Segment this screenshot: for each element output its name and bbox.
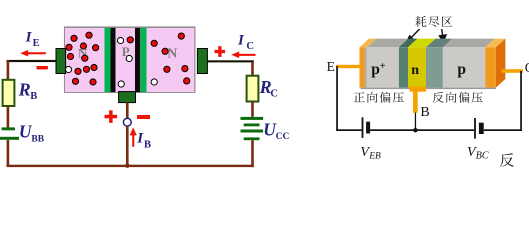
base P region (pink) (116, 28, 136, 92)
svg-text:E: E (33, 38, 40, 49)
svg-text:I: I (25, 30, 33, 46)
junction dot at B (413, 128, 417, 132)
wire: bottom rail (6, 165, 253, 167)
hole dot (white) in emitter region (65, 66, 71, 72)
svg-text:E: E (327, 59, 335, 74)
collector N region (pink) (147, 28, 195, 92)
junction strip green (E side) (105, 28, 111, 92)
svg-text:+: + (380, 61, 386, 72)
battery V_EB thin long plate (362, 117, 364, 138)
bar right side face (orange) (496, 39, 506, 88)
wire: node down to bottom rail (126, 126, 129, 166)
wire: base lead (tab to node) (126, 103, 129, 119)
battery U_BB plate short (top) (2, 127, 15, 130)
wire: U_CC down to bottom rail corner (251, 140, 254, 167)
svg-text:p: p (457, 61, 466, 78)
wire: left loop vertical (336, 66, 338, 130)
electron dot in base region (127, 37, 133, 43)
electron dots in emitter N region (66, 32, 99, 85)
bar top face: p region (443, 39, 495, 48)
transistor block border (65, 27, 195, 92)
emitter N region (pink) (65, 28, 105, 92)
svg-text:BB: BB (31, 135, 44, 145)
resistor R_C (247, 76, 259, 102)
label 耗尽区 (depletion region) (415, 16, 426, 27)
battery V_EB thick short plate (366, 122, 370, 134)
wire: U_BB down to bottom rail (7, 140, 10, 166)
wire: base thin lead to bottom rail (415, 113, 416, 131)
bar top face: B-C depletion strip (426, 39, 452, 48)
svg-text:EB: EB (368, 151, 381, 161)
battery U_CC plate short 1 (244, 124, 260, 127)
bar front: n region (408, 47, 426, 87)
svg-text:BC: BC (476, 150, 489, 161)
wire: right loop vertical (520, 71, 522, 131)
svg-text:C: C (525, 60, 529, 75)
minus sign at emitter (37, 66, 48, 69)
battery U_CC plate long 1 (241, 117, 264, 120)
bar top face: collector cap (485, 39, 505, 48)
emitter electrode tab (56, 49, 66, 74)
shadow under bar (361, 88, 496, 90)
wire: bottom rail left loop (336, 129, 362, 131)
wire: left branch vertical down to R_B (7, 60, 10, 80)
svg-text:B: B (144, 140, 151, 151)
junction strip green (C side) (141, 28, 147, 92)
base connector stub under n region (orange) (410, 87, 427, 92)
svg-text:N: N (167, 46, 177, 61)
battery U_CC plate long 2 (241, 130, 264, 133)
resistor R_B (3, 80, 15, 106)
arrow I_C (red, pointing left) (231, 52, 255, 59)
wire: collector lead horizontal (tab to right corner) (207, 60, 253, 62)
bar front: p region (443, 47, 485, 87)
svg-text:I: I (136, 131, 144, 147)
label 反向偏压 (reverse bias) (433, 92, 444, 103)
plus sign at base (105, 110, 118, 123)
arrow to B-C depletion layer (439, 29, 446, 42)
arrow I_E (red, pointing left) (20, 50, 46, 57)
bar top face: p+ emitter cap (360, 39, 377, 48)
svg-text:I: I (237, 33, 245, 49)
svg-text:CC: CC (276, 132, 290, 142)
base electrode tab (119, 92, 136, 103)
bar top face: p+ region (367, 39, 408, 48)
bar front: p+ region (367, 47, 399, 87)
bar top face: n region (408, 39, 436, 48)
battery U_CC plate short 2 (244, 137, 260, 140)
wire: emitter lead horizontal (tab to left corner) (6, 60, 57, 62)
svg-text:B: B (30, 91, 37, 102)
electron dots in collector N region (151, 33, 190, 84)
svg-text:n: n (411, 63, 419, 78)
plus sign at collector (215, 46, 226, 57)
wire: C lead (orange) (502, 69, 524, 73)
svg-text:B: B (420, 105, 429, 120)
svg-text:R: R (18, 79, 31, 99)
battery V_BC thin long plate (474, 118, 476, 139)
wire: R_B to U_BB (7, 106, 10, 128)
stray character 反 (500, 153, 514, 167)
hole dot (white) in collector region (151, 79, 157, 85)
cap shadow sliver (365, 47, 367, 87)
junction strip black (C side) (135, 28, 140, 92)
wire: bottom rail V_EB to V_BC (370, 129, 474, 131)
arrow I_B (red, pointing up) (130, 127, 137, 146)
node B (open circle) (123, 118, 131, 126)
hole dots in base region (117, 37, 132, 87)
bar front: E-B depletion strip (399, 47, 408, 87)
svg-text:p: p (371, 61, 380, 78)
wire: R_C to U_CC (251, 102, 254, 117)
wire: base lead down (orange) (413, 92, 418, 113)
battery U_BB plate long (bottom) (0, 137, 19, 140)
collector electrode tab (197, 49, 207, 74)
bar front: emitter cap (orange) (360, 47, 368, 87)
arrow to E-B depletion layer (406, 29, 419, 43)
battery V_BC thick short plate (479, 123, 484, 134)
svg-text:C: C (270, 88, 278, 99)
bar front: collector cap (orange) (485, 47, 496, 87)
svg-text:C: C (246, 41, 254, 52)
label 正向偏压 (forward bias) (354, 92, 365, 102)
junction blob on bottom rail (125, 163, 130, 168)
minus sign at base node (137, 115, 150, 119)
wire: bottom rail V_BC to right loop (484, 129, 522, 131)
bar top face: E-B depletion strip (399, 39, 418, 48)
wire: E lead (orange) (336, 65, 361, 68)
wire: right branch vertical to R_C (251, 62, 254, 76)
junction strip black (E side) (111, 28, 116, 92)
bar front: B-C depletion strip (426, 47, 443, 87)
